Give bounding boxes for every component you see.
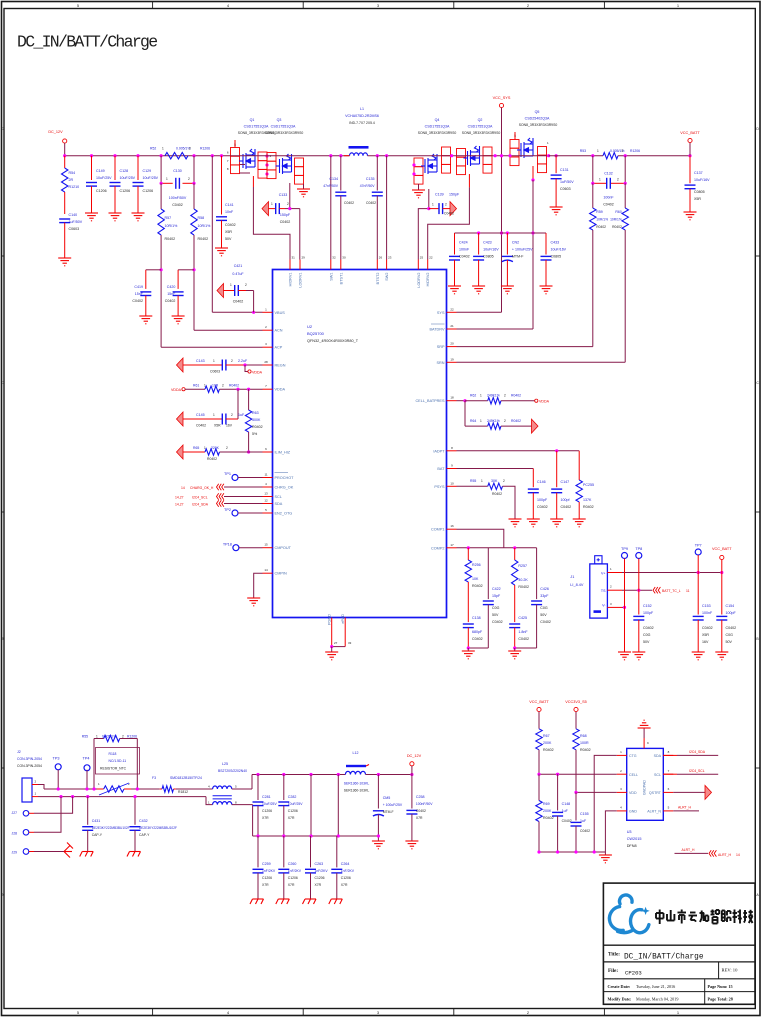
svg-text:C0402: C0402	[233, 300, 244, 304]
ground above U3	[638, 720, 651, 728]
resistor R64	[464, 401, 466, 426]
svg-text:TP4: TP4	[83, 757, 90, 761]
junction	[192, 154, 195, 157]
pin LODRV1 (29) of U2	[299, 260, 301, 270]
svg-text:C0402: C0402	[537, 505, 548, 509]
svg-text:Q2: Q2	[478, 118, 483, 122]
capacitor C258	[411, 775, 413, 809]
svg-text:VCC3V3_S5: VCC3V3_S5	[565, 700, 587, 704]
junction	[537, 773, 540, 776]
svg-text:R63: R63	[252, 411, 259, 415]
testpoint TP8	[636, 553, 642, 559]
svg-text:PGND: PGND	[328, 614, 332, 625]
svg-text:U3: U3	[627, 830, 632, 834]
resistor R58	[193, 183, 195, 209]
svg-text:REV: 10: REV: 10	[722, 968, 739, 973]
junction	[574, 850, 577, 853]
svg-text:C1206: C1206	[262, 809, 272, 813]
wire VDD net	[576, 791, 617, 793]
junction	[574, 791, 577, 794]
svg-text:DC_IN/BATT/Charge: DC_IN/BATT/Charge	[17, 33, 157, 52]
svg-text:47nF/50V: 47nF/50V	[323, 184, 338, 188]
pin CMPOUT (15) of U2	[263, 547, 273, 549]
svg-text:SON8_3R3X3R3X3R9S0: SON8_3R3X3R3X3R9S0	[265, 131, 304, 135]
svg-text:X7R: X7R	[416, 816, 423, 820]
net I2C4_SDA wire	[663, 754, 677, 756]
svg-text:C0402: C0402	[416, 809, 426, 813]
svg-text:R1812: R1812	[178, 790, 188, 794]
junction BTST2	[376, 154, 379, 157]
junction	[624, 154, 627, 157]
svg-text:C419: C419	[134, 285, 143, 289]
svg-text:DC_IN/BATT/Charge: DC_IN/BATT/Charge	[624, 953, 704, 961]
op-amp U2 charger IC body	[273, 270, 447, 618]
svg-text:C0402: C0402	[643, 626, 654, 630]
pin BTST1 (30) of U2	[340, 260, 342, 270]
capacitor C130 kelvin sense	[160, 156, 162, 184]
svg-text:BATT_TC_L: BATT_TC_L	[662, 589, 681, 593]
pin GNDPAD (9) of U3 to ground	[643, 738, 645, 748]
junction	[309, 773, 312, 776]
junction C419 tap	[160, 268, 163, 271]
company name text	[656, 910, 664, 925]
pin ILIM_HIZ (6) of U2	[263, 451, 273, 453]
wire SW2 column	[386, 156, 388, 260]
svg-text:IADPT: IADPT	[433, 449, 445, 453]
svg-text:C148: C148	[562, 802, 571, 806]
junction BTST1	[339, 154, 342, 157]
svg-text:1nF/2KV: 1nF/2KV	[341, 869, 355, 873]
svg-text:C0402: C0402	[196, 424, 206, 428]
wire R58 to ACN node	[193, 235, 195, 330]
svg-text:Q1: Q1	[250, 118, 255, 122]
capacitor C281	[257, 775, 259, 801]
capacitor C140	[59, 218, 70, 220]
svg-text:X5R: X5R	[694, 197, 701, 201]
svg-text:I2C4_SCL: I2C4_SCL	[192, 496, 208, 500]
junction	[591, 154, 594, 157]
svg-text:C264: C264	[341, 862, 350, 866]
svg-text:CSD17551Q3A: CSD17551Q3A	[244, 125, 269, 129]
junction	[537, 850, 540, 853]
svg-text:BTST2: BTST2	[376, 273, 380, 285]
svg-text:SRN: SRN	[436, 361, 444, 365]
ground under C131	[550, 207, 563, 215]
junction	[377, 834, 380, 837]
svg-text:2: 2	[504, 394, 506, 398]
svg-text:R69: R69	[543, 802, 550, 806]
svg-text:C1206: C1206	[341, 876, 351, 880]
wire R59 to SRP	[592, 230, 594, 347]
testpoint TP7	[695, 549, 701, 555]
junction	[555, 449, 558, 452]
svg-text:C281: C281	[262, 795, 271, 799]
svg-text:PSYS: PSYS	[434, 485, 445, 489]
ground under C423	[472, 286, 485, 294]
svg-text:CSD17551Q3A: CSD17551Q3A	[271, 125, 296, 129]
pin ALRT_N (5) of U3	[663, 810, 673, 812]
svg-text:C1206: C1206	[288, 876, 298, 880]
svg-text:R0402: R0402	[580, 748, 591, 752]
capacitor C423	[478, 233, 480, 255]
svg-text:J29: J29	[12, 851, 18, 855]
svg-text:16V: 16V	[702, 640, 709, 644]
svg-text:L25: L25	[222, 762, 228, 766]
capacitor C152	[633, 615, 644, 617]
svg-text:R0402: R0402	[583, 505, 594, 509]
svg-text:1: 1	[162, 147, 164, 151]
svg-text:R1206: R1206	[127, 735, 137, 739]
svg-text:27: 27	[334, 641, 338, 645]
wire ACP net	[161, 346, 262, 348]
junction	[71, 795, 74, 798]
svg-text:CAP-Y: CAP-Y	[92, 833, 103, 837]
pin SCL (13) of U2	[263, 496, 273, 498]
svg-text:X7R: X7R	[341, 883, 348, 887]
svg-text:C0402: C0402	[540, 620, 551, 624]
svg-text:C0402: C0402	[165, 299, 176, 303]
ground under C154	[715, 652, 728, 660]
ground under C141	[215, 248, 228, 256]
svg-text:R68: R68	[580, 734, 587, 738]
svg-text:QFN32_4R00X4R00X0R80_T: QFN32_4R00X4R00X0R80_T	[307, 339, 359, 343]
ground under C419	[139, 316, 152, 324]
svg-text:2.2uF: 2.2uF	[238, 359, 248, 363]
svg-text:R1210: R1210	[69, 185, 80, 189]
svg-text:CMPIN: CMPIN	[275, 572, 287, 576]
pin PROCHOT (11) of U2	[263, 477, 273, 479]
svg-text:11: 11	[686, 589, 690, 593]
capacitor C421	[217, 284, 224, 298]
svg-text:C432: C432	[139, 819, 148, 823]
svg-text:C0402: C0402	[225, 223, 236, 227]
junction	[136, 154, 139, 157]
svg-text:R54: R54	[69, 171, 76, 175]
junction	[531, 231, 534, 234]
wire gauge ground bus	[539, 851, 605, 853]
svg-text:13: 13	[264, 492, 268, 496]
svg-text:14: 14	[181, 486, 185, 490]
ground under C129	[132, 213, 145, 221]
pin HIDRV2 (22) of U2	[427, 260, 429, 270]
junction	[220, 154, 223, 157]
svg-text:100nF: 100nF	[459, 248, 470, 252]
svg-text:Q3: Q3	[277, 118, 282, 122]
svg-text:C0402: C0402	[562, 819, 572, 823]
svg-text:ALRT_H: ALRT_H	[682, 848, 695, 852]
svg-text:10: 10	[450, 481, 454, 485]
capacitor C419	[146, 269, 161, 271]
svg-text:C0402: C0402	[444, 212, 454, 216]
svg-text:R0402: R0402	[472, 584, 483, 588]
capacitor CN2	[506, 233, 508, 255]
capacitor C420	[178, 269, 194, 271]
pin SRN (19) of U2	[447, 361, 457, 363]
pin VDDA (7) of U2	[263, 388, 273, 390]
svg-text:X7R: X7R	[288, 883, 295, 887]
svg-text:100pF: 100pF	[726, 611, 737, 615]
wire L25 outputs	[232, 788, 252, 790]
capacitor C264 Y-cap	[336, 836, 338, 867]
svg-text:CM5: CM5	[383, 796, 391, 800]
wire CTG to bus	[594, 755, 617, 852]
svg-text:C1206: C1206	[96, 189, 107, 193]
svg-text:VDDA: VDDA	[275, 388, 286, 392]
svg-text:RESISTOR_NTC: RESISTOR_NTC	[100, 767, 127, 771]
power port VCC3V3_S5	[574, 707, 578, 711]
svg-text:R256: R256	[472, 563, 481, 567]
junction	[236, 388, 239, 391]
svg-text:C0805: C0805	[551, 255, 562, 259]
wire bottom top rail	[44, 788, 97, 790]
wire ePAD to PGND	[332, 646, 346, 648]
svg-text:C282: C282	[288, 795, 297, 799]
svg-text:R0402: R0402	[543, 816, 554, 820]
svg-text:R57: R57	[165, 216, 172, 220]
junction	[410, 773, 413, 776]
svg-text:1: 1	[481, 479, 483, 483]
svg-text:TP7: TP7	[695, 544, 702, 548]
svg-text:C0603: C0603	[210, 370, 220, 374]
svg-text:VDDA: VDDA	[539, 400, 550, 404]
svg-text:R0402: R0402	[207, 457, 217, 461]
svg-text:10nF: 10nF	[225, 210, 234, 214]
wire column 3	[310, 775, 312, 837]
svg-text:15: 15	[264, 543, 268, 547]
svg-text:C0402: C0402	[472, 637, 483, 641]
svg-text:SW2: SW2	[385, 273, 389, 281]
pin SYS (22) of U2	[447, 311, 457, 313]
ground under C137	[684, 212, 697, 220]
svg-text:C0402: C0402	[366, 201, 376, 205]
capacitor C431 Y-cap	[87, 797, 89, 825]
svg-text:10uF/16V: 10uF/16V	[694, 178, 710, 182]
svg-text:C141: C141	[225, 203, 234, 207]
svg-text:100nF: 100nF	[603, 196, 614, 200]
wire Q4-Q2-Q5 rail	[414, 155, 549, 157]
junction	[477, 231, 480, 234]
capacitor C135 bootstrap	[376, 156, 378, 191]
ground under CM5	[372, 841, 385, 849]
svg-text:R1206: R1206	[630, 149, 640, 153]
wire battery V- to TP9 column	[607, 606, 622, 608]
junction	[85, 787, 88, 790]
svg-text:J27: J27	[12, 811, 18, 815]
svg-text:C426: C426	[540, 587, 549, 591]
svg-text:C0402: C0402	[603, 203, 614, 207]
wire R60 to SRN	[624, 230, 626, 362]
resistor R256	[467, 548, 469, 560]
svg-text:50V: 50V	[643, 640, 650, 644]
svg-text:10uF/25V: 10uF/25V	[96, 176, 112, 180]
resistor R61	[185, 388, 205, 390]
junction	[377, 773, 380, 776]
wire C133 to LODRV1	[299, 209, 301, 260]
svg-text:R61: R61	[193, 384, 199, 388]
wire C140 to ground	[64, 223, 66, 258]
svg-text:X7R: X7R	[315, 883, 322, 887]
svg-text:1.8nF: 1.8nF	[518, 630, 528, 634]
svg-text:26: 26	[379, 256, 383, 260]
svg-text:16V: 16V	[226, 424, 233, 428]
pin CMPIN (14) of U2	[263, 572, 273, 574]
svg-text:R1206: R1206	[200, 147, 210, 151]
svg-text:15nF: 15nF	[135, 292, 144, 296]
svg-text:SYS: SYS	[437, 311, 445, 315]
wire BAT to C146	[457, 468, 534, 470]
svg-text:17: 17	[450, 543, 454, 547]
svg-text:2R: 2R	[69, 178, 74, 182]
svg-text:2: 2	[226, 446, 228, 450]
svg-text:R65: R65	[193, 446, 199, 450]
wire L12 to DC_12V	[366, 774, 412, 776]
ground under C153	[692, 652, 705, 660]
svg-text:16: 16	[450, 524, 454, 528]
svg-text:TP2: TP2	[224, 508, 231, 512]
svg-text:10uF/25V: 10uF/25V	[288, 802, 303, 806]
pin COMP1 (16) of U2	[447, 528, 457, 530]
svg-text:ALRT_N: ALRT_N	[647, 810, 661, 814]
net arrow on R64	[532, 419, 539, 433]
svg-text:50V: 50V	[726, 640, 733, 644]
svg-text:L1: L1	[360, 107, 364, 111]
capacitor C133	[262, 202, 269, 216]
svg-text:Q5: Q5	[535, 110, 540, 114]
svg-text:C0G: C0G	[643, 633, 651, 637]
junction	[494, 154, 497, 157]
ground under C140	[58, 258, 71, 266]
ground under C424	[448, 286, 461, 294]
resistor R67	[536, 729, 542, 750]
svg-text:CHRG_OK: CHRG_OK	[275, 486, 294, 490]
capacitor C131	[555, 154, 558, 157]
wire R57 to ACP node	[160, 235, 162, 347]
svg-text:TP8: TP8	[635, 547, 642, 551]
svg-text:2: 2	[287, 202, 289, 206]
svg-text:15nF: 15nF	[167, 292, 176, 296]
svg-text:100pF: 100pF	[643, 611, 654, 615]
svg-text:Page Total: 28: Page Total: 28	[708, 997, 733, 1002]
wire CELL net	[538, 773, 617, 775]
ground under R257/C425	[514, 648, 516, 651]
junction VBUS/C421	[252, 311, 255, 314]
svg-text:23: 23	[388, 256, 392, 260]
svg-text:C129: C129	[143, 169, 152, 173]
svg-text:CTG: CTG	[629, 754, 637, 758]
svg-text:CHARG_OK_H: CHARG_OK_H	[190, 486, 214, 490]
svg-text:C260: C260	[288, 862, 297, 866]
svg-text:SRP: SRP	[437, 345, 445, 349]
wire battery V+ to VCC_BATT	[607, 572, 622, 574]
svg-text:1uF: 1uF	[562, 809, 569, 813]
svg-text:C149: C149	[96, 169, 105, 173]
resistor R57	[160, 183, 162, 209]
junction	[59, 795, 62, 798]
svg-text:1nF/2KV: 1nF/2KV	[288, 869, 302, 873]
resistor R68	[573, 729, 579, 750]
pin CELL_BATPRES (18) of U2	[447, 400, 457, 402]
chassis ground under C260	[276, 899, 290, 904]
power port DC_12V (top-left)	[63, 139, 67, 143]
power port VCC_BATT (gauge)	[537, 707, 541, 711]
pin CTG (1) of U3	[617, 754, 627, 756]
svg-text:C0402: C0402	[518, 637, 529, 641]
pin ePAD (33) of U2	[344, 618, 346, 647]
svg-text:DC_12V: DC_12V	[407, 754, 422, 758]
svg-text:CP203: CP203	[625, 969, 642, 976]
svg-text:SDA: SDA	[275, 502, 283, 506]
junction	[309, 834, 312, 837]
svg-text:C424: C424	[459, 241, 468, 245]
svg-text:100R: 100R	[580, 741, 589, 745]
junction	[513, 646, 516, 649]
svg-text:1: 1	[480, 419, 482, 423]
svg-text:GNDPAD: GNDPAD	[643, 780, 647, 796]
svg-text:R0402: R0402	[198, 237, 209, 241]
svg-text:Q4: Q4	[435, 118, 440, 122]
svg-text:TS: TS	[601, 589, 606, 593]
svg-text:1: 1	[166, 177, 168, 181]
svg-text:VDDA: VDDA	[171, 388, 182, 392]
svg-text:PC255: PC255	[583, 483, 594, 487]
junction	[133, 795, 136, 798]
company logo cloud	[609, 895, 648, 933]
capacitor C128	[114, 156, 116, 180]
wire GND pin to bus	[605, 811, 616, 852]
svg-text:Title:: Title:	[608, 952, 620, 958]
wire ACN net	[194, 329, 263, 331]
title block frame	[603, 883, 755, 1004]
capacitor C260 Y-cap	[283, 836, 285, 867]
svg-text:DE2E3KY222MB3BU102F: DE2E3KY222MB3BU102F	[92, 826, 130, 830]
capacitor C148	[557, 774, 559, 810]
svg-text:100pf: 100pf	[561, 498, 570, 502]
junction	[211, 154, 214, 157]
svg-text:HIDRV1: HIDRV1	[289, 273, 293, 287]
svg-text:100nF/50V: 100nF/50V	[169, 196, 187, 200]
junction	[547, 154, 550, 157]
svg-text:I2C4_SDA: I2C4_SDA	[192, 503, 209, 507]
svg-text:C138: C138	[472, 616, 481, 620]
svg-text:C1206: C1206	[120, 189, 131, 193]
ground under C147	[550, 519, 563, 527]
svg-text:300K: 300K	[252, 418, 261, 422]
svg-text:CAP-Y: CAP-Y	[139, 833, 150, 837]
op-amp U3 fuel gauge body	[627, 748, 664, 820]
wire SYS cap bank bus	[455, 232, 547, 234]
svg-text:31: 31	[292, 256, 296, 260]
ground under C258	[405, 841, 418, 849]
svg-text:C147: C147	[561, 480, 570, 484]
svg-text:C433: C433	[551, 241, 560, 245]
wire CELL_BATPRES	[457, 400, 466, 402]
svg-text:C135: C135	[366, 177, 375, 181]
svg-text:C1206: C1206	[288, 809, 298, 813]
net arrow QSTRT	[673, 791, 705, 793]
junction	[330, 645, 333, 648]
testpoint TP1	[232, 475, 238, 481]
svg-text:200K: 200K	[543, 741, 552, 745]
capacitor C141	[221, 156, 223, 215]
svg-text:HIDRV2: HIDRV2	[426, 273, 430, 287]
svg-text:R0402: R0402	[612, 225, 622, 229]
svg-text:150pF: 150pF	[280, 213, 291, 217]
svg-text:SCL: SCL	[275, 495, 282, 499]
junction	[86, 795, 89, 798]
ground on CMPIN	[247, 598, 260, 606]
resistor R65 on ILIM_HIZ	[177, 445, 184, 459]
power port VCC_BATT (top)	[688, 138, 692, 142]
